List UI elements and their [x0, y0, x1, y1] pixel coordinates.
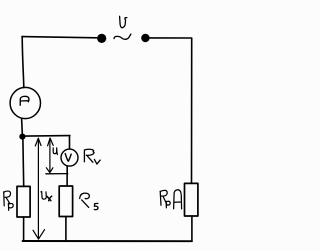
bottom rail wire	[23, 240, 192, 242]
wire horizontal from junction to voltmeter branch	[25, 135, 70, 138]
label Ux	[41, 192, 52, 201]
label u	[53, 148, 57, 155]
label RpA	[160, 190, 181, 209]
wire junction down to Rp top	[22, 140, 25, 187]
label U (source voltage)	[120, 16, 127, 28]
wire R5 bottom to bottom rail	[65, 217, 67, 240]
junction node dot	[19, 134, 25, 140]
voltmeter letter V	[65, 154, 71, 162]
ammeter A	[10, 87, 40, 118]
AC source terminal dot (right)	[141, 34, 149, 42]
measurement tick wire at Rv-R5 junction	[46, 173, 68, 175]
label R5	[80, 193, 98, 210]
resistor RpA	[185, 183, 198, 216]
voltmeter V (internal resistance Rv)	[61, 149, 78, 166]
wire top-left horizontal (node to source left terminal)	[22, 37, 97, 38]
label Rp	[4, 191, 14, 210]
wire bottom rail up to RpA bottom	[191, 216, 193, 241]
resistor Rp	[17, 186, 30, 217]
voltage arrow Ux (double-headed, top wire to bottom rail)	[33, 138, 45, 239]
label Rv	[84, 149, 100, 164]
AC source symbol ~	[114, 34, 131, 39]
wire voltmeter bottom to R5 top	[66, 166, 68, 186]
wire stub down to voltmeter top	[69, 136, 71, 149]
ammeter letter A	[20, 96, 29, 105]
wire Rp bottom to bottom rail	[23, 217, 25, 240]
wire left vertical (top node down to ammeter)	[22, 37, 24, 88]
wire ammeter bottom to junction	[21, 119, 24, 134]
voltage arrow u (double-headed, top wire to Rv-R5 junction tick)	[46, 138, 53, 173]
resistor R5	[59, 186, 72, 217]
wire top-right horizontal and right vertical down to RpA	[150, 38, 192, 183]
AC source terminal dot (left)	[97, 34, 106, 43]
